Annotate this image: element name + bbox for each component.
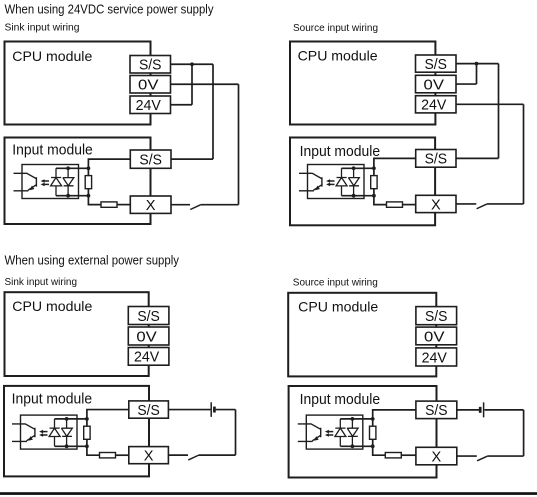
- wire node down to 24V level (TL): [191, 64, 193, 105]
- optocoupler package outline (top-right): [308, 165, 365, 199]
- battery long plate (BR): [483, 402, 485, 417]
- LED bottom rail (top-right): [342, 195, 374, 197]
- svg-text:S/S: S/S: [137, 309, 160, 325]
- series resistor body (top-right): [387, 202, 403, 207]
- label: sink input wiring (top-left): [5, 22, 80, 34]
- wire switch to 24V net (TR): [487, 203, 524, 205]
- svg-text:When using external power supp: When using external power supply: [5, 253, 180, 268]
- phototransistor emitter arrow (top-right): [315, 186, 320, 191]
- phototransistor emitter arrow (top-left): [30, 186, 35, 191]
- phototransistor emitter arrow (bottom-left): [28, 436, 33, 441]
- svg-text:Source input wiring: Source input wiring: [293, 276, 378, 288]
- svg-text:Input module: Input module: [12, 391, 93, 407]
- wire input S/S to resistor node (bottom-left): [87, 410, 129, 419]
- svg-text:X: X: [431, 449, 441, 465]
- CPU terminal 0V (bottom-left): [128, 327, 169, 345]
- junction dot diode top (bottom-right): [351, 417, 355, 421]
- LED diode down (bottom-left): [61, 419, 72, 446]
- svg-text:S/S: S/S: [425, 152, 448, 168]
- CPU terminal 0V (top-right): [416, 75, 457, 93]
- wire series resistor to X (bottom-right): [401, 454, 416, 456]
- input terminal S/S label (bottom-left): [137, 403, 160, 419]
- switch blade X circuit (top-left): [190, 205, 200, 210]
- wire input S/S to battery (BR): [457, 409, 479, 411]
- wire CPU S/S right (TL): [171, 63, 214, 65]
- junction dot diode top (bottom-left): [65, 417, 69, 421]
- junction dot diode bottom (bottom-left): [65, 444, 69, 448]
- svg-text:S/S: S/S: [425, 309, 448, 325]
- battery short plate (BL): [213, 407, 216, 413]
- Input module label (bottom-left): [12, 391, 93, 407]
- svg-text:0V: 0V: [424, 77, 445, 93]
- wire 24V right (TL): [171, 104, 193, 106]
- page bottom rule: [0, 492, 537, 495]
- CPU module box (top-left): [5, 42, 151, 125]
- input terminal S/S label (top-right): [425, 152, 448, 168]
- series resistor body (bottom-right): [385, 453, 401, 458]
- input terminal S/S label (bottom-right): [425, 403, 448, 419]
- wire S/S net vertical (TL): [212, 64, 214, 159]
- CPU terminal 0V label (bottom-right): [424, 329, 445, 345]
- LED diode up (bottom-left): [49, 419, 60, 446]
- wire switch to 0V net (TL): [201, 204, 239, 206]
- input terminal X label (top-right): [431, 197, 441, 213]
- wire X right stub (BL): [168, 454, 188, 456]
- CPU terminal S/S (top-left): [130, 56, 171, 74]
- svg-text:S/S: S/S: [425, 403, 448, 419]
- CPU terminal S/S label (bottom-left): [137, 309, 160, 325]
- CPU terminal 24V (top-left): [130, 96, 171, 114]
- phototransistor (top-right): [299, 173, 322, 191]
- input terminal X (bottom-left): [129, 447, 169, 464]
- svg-text:X: X: [146, 198, 156, 214]
- CPU terminal 24V label (bottom-right): [422, 350, 448, 366]
- wire 0V net vertical (TL): [238, 84, 240, 204]
- resistor vertical body (bottom-right): [370, 426, 376, 439]
- switch blade X circuit (top-right): [477, 204, 487, 209]
- wire resistor node to series resistor (bottom-right): [373, 446, 386, 455]
- CPU terminal S/S label (top-right): [425, 57, 448, 73]
- light arrow 1 (top-right): [326, 179, 334, 183]
- svg-text:S/S: S/S: [139, 152, 162, 168]
- input terminal X (top-right): [416, 195, 456, 212]
- Input module box (top-left): [5, 138, 151, 225]
- input terminal S/S (bottom-right): [416, 401, 457, 419]
- CPU terminal 0V (top-left): [130, 76, 171, 94]
- CPU terminal 0V label (top-left): [138, 78, 159, 94]
- wire input S/S to resistor node (bottom-right): [373, 410, 416, 419]
- svg-text:0V: 0V: [138, 78, 159, 94]
- wire 0V right (TR): [456, 83, 477, 85]
- wire input S/S to battery (BL): [168, 409, 210, 411]
- junction dot S/S-0V (TR): [475, 62, 479, 66]
- wire X right stub (TL): [171, 204, 190, 206]
- light arrow 2 (top-right): [326, 183, 334, 187]
- optocoupler package outline (bottom-left): [21, 415, 78, 449]
- CPU module label (bottom-left): [12, 298, 92, 314]
- LED top rail (top-right): [342, 167, 374, 169]
- wire series resistor to X (top-left): [117, 204, 130, 206]
- label: source input wiring (bottom-right): [293, 276, 378, 288]
- optocoupler package outline (bottom-right): [306, 415, 363, 449]
- wire input S/S right stub (TL): [171, 158, 213, 160]
- LED top rail (top-left): [56, 167, 88, 169]
- wire resistor node to series resistor (top-left): [88, 196, 101, 205]
- resistor vertical leads (top-right): [373, 168, 375, 195]
- svg-text:24V: 24V: [422, 350, 448, 366]
- input terminal X label (top-left): [146, 198, 156, 214]
- LED bottom rail (top-left): [56, 195, 88, 197]
- phototransistor emitter arrow (bottom-right): [314, 436, 319, 441]
- LED diode down (top-right): [348, 168, 359, 195]
- light arrow 2 (bottom-left): [39, 433, 47, 437]
- wire battery to net (BR): [485, 409, 524, 411]
- resistor vertical body (bottom-left): [84, 426, 90, 439]
- input terminal S/S (top-right): [416, 150, 456, 168]
- CPU terminal 0V label (bottom-left): [136, 329, 157, 345]
- svg-text:CPU module: CPU module: [298, 47, 378, 63]
- input terminal X (top-left): [130, 196, 171, 213]
- input terminal X label (bottom-right): [431, 449, 441, 465]
- phototransistor (bottom-right): [298, 424, 321, 442]
- wire 24V net vertical (TR): [523, 104, 525, 204]
- svg-text:24V: 24V: [134, 350, 160, 366]
- svg-text:When using 24VDC service power: When using 24VDC service power supply: [5, 2, 214, 17]
- CPU module label (top-right): [298, 47, 378, 63]
- light arrow 1 (top-left): [41, 179, 49, 183]
- wire battery net vertical (BR): [523, 410, 525, 456]
- LED bottom rail (bottom-left): [55, 445, 87, 447]
- CPU terminal 24V (top-right): [416, 96, 457, 113]
- LED top rail (bottom-left): [55, 418, 87, 420]
- wire series resistor to X (top-right): [403, 204, 416, 206]
- phototransistor (bottom-left): [12, 424, 35, 442]
- wire input S/S to resistor node (top-right): [374, 158, 416, 168]
- svg-text:0V: 0V: [136, 329, 157, 345]
- CPU terminal 24V label (bottom-left): [134, 350, 160, 366]
- light arrow 2 (bottom-right): [325, 433, 333, 437]
- junction dot resistor top (top-left): [87, 166, 91, 170]
- CPU terminal S/S (bottom-right): [416, 307, 457, 325]
- wire X right stub (TR): [456, 203, 476, 205]
- svg-text:CPU module: CPU module: [12, 48, 92, 64]
- junction dot resistor bottom (top-right): [372, 194, 376, 198]
- CPU terminal S/S label (top-left): [139, 58, 162, 74]
- title: when using external power supply: [5, 253, 180, 268]
- CPU terminal 0V (bottom-right): [416, 327, 457, 345]
- svg-text:S/S: S/S: [137, 403, 160, 419]
- svg-text:CPU module: CPU module: [12, 298, 92, 314]
- LED diode down (top-left): [63, 168, 74, 195]
- wire battery net vertical (BL): [235, 410, 237, 456]
- svg-text:S/S: S/S: [425, 57, 448, 73]
- wire series resistor to X (bottom-left): [116, 454, 129, 456]
- wire node down to 0V level (TR): [476, 64, 478, 84]
- input terminal X (bottom-right): [416, 447, 457, 465]
- svg-text:X: X: [144, 448, 154, 464]
- Input module box (bottom-left): [4, 386, 149, 477]
- svg-text:Input module: Input module: [300, 144, 381, 160]
- resistor vertical leads (bottom-left): [86, 419, 88, 446]
- input terminal X label (bottom-left): [144, 448, 154, 464]
- junction dot resistor top (bottom-right): [371, 417, 375, 421]
- light arrow 1 (bottom-left): [39, 430, 47, 434]
- CPU module label (bottom-right): [298, 299, 378, 315]
- Input module box (bottom-right): [289, 386, 437, 478]
- CPU module label (top-left): [12, 48, 92, 64]
- junction dot diode bottom (top-left): [66, 194, 70, 198]
- CPU terminal S/S (bottom-left): [128, 307, 169, 325]
- svg-text:S/S: S/S: [139, 58, 162, 74]
- wire CPU S/S right (TR): [456, 63, 499, 65]
- CPU module box (top-right): [290, 42, 435, 125]
- resistor vertical body (top-right): [371, 176, 377, 189]
- wire input S/S right stub (TR): [456, 157, 499, 159]
- junction dot diode bottom (bottom-right): [351, 444, 355, 448]
- phototransistor (top-left): [14, 173, 37, 191]
- junction dot resistor bottom (bottom-right): [371, 444, 375, 448]
- switch blade X circuit (bottom-left): [188, 455, 198, 460]
- wire 24V right (TR): [456, 103, 524, 105]
- Input module label (bottom-right): [300, 392, 381, 408]
- light arrow 1 (bottom-right): [325, 430, 333, 434]
- LED diode up (top-left): [51, 168, 62, 195]
- input terminal S/S (top-left): [130, 150, 171, 168]
- resistor vertical leads (bottom-right): [372, 419, 374, 446]
- switch blade X circuit (bottom-right): [477, 456, 487, 461]
- LED diode up (top-right): [336, 168, 347, 195]
- resistor vertical leads (top-left): [87, 168, 89, 195]
- LED diode up (bottom-right): [335, 419, 346, 446]
- CPU module box (bottom-left): [5, 292, 149, 376]
- svg-text:24V: 24V: [136, 98, 162, 114]
- CPU terminal 24V (bottom-right): [416, 348, 457, 366]
- junction dot diode top (top-right): [352, 166, 356, 170]
- LED top rail (bottom-right): [340, 418, 372, 420]
- title: when using 24VDC service power supply: [5, 2, 214, 17]
- series resistor body (bottom-left): [100, 453, 116, 458]
- label: sink input wiring (bottom-left): [5, 276, 78, 288]
- wire net to switch (BR): [487, 455, 523, 457]
- battery long plate (BL): [210, 402, 212, 417]
- CPU terminal S/S label (bottom-right): [425, 309, 448, 325]
- junction dot S/S-24V (TL): [190, 62, 194, 66]
- optocoupler package outline (top-left): [22, 165, 79, 199]
- CPU terminal 24V label (top-left): [136, 98, 162, 114]
- input terminal S/S (bottom-left): [129, 401, 169, 418]
- Input module box (top-right): [290, 138, 435, 226]
- resistor vertical body (top-left): [85, 176, 91, 189]
- svg-text:0V: 0V: [424, 329, 445, 345]
- CPU terminal S/S (top-right): [416, 55, 457, 72]
- wire input S/S to resistor node (top-left): [88, 159, 130, 168]
- wire net to switch (BL): [199, 454, 236, 456]
- CPU terminal 24V (bottom-left): [128, 348, 169, 366]
- junction dot resistor bottom (top-left): [87, 194, 91, 198]
- CPU terminal 0V label (top-right): [424, 77, 445, 93]
- svg-text:24V: 24V: [421, 98, 447, 114]
- series resistor body (top-left): [101, 202, 117, 207]
- Input module label (top-left): [12, 143, 93, 159]
- Input module label (top-right): [300, 144, 381, 160]
- wire battery to net (BL): [216, 409, 236, 411]
- CPU module box (bottom-right): [288, 293, 436, 377]
- CPU terminal 24V label (top-right): [421, 98, 447, 114]
- svg-text:X: X: [431, 197, 441, 213]
- junction dot diode bottom (top-right): [352, 194, 356, 198]
- input terminal S/S label (top-left): [139, 152, 162, 168]
- svg-text:Input module: Input module: [300, 392, 381, 408]
- junction dot diode top (top-left): [66, 166, 70, 170]
- battery short plate (BR): [479, 407, 482, 413]
- wire resistor node to series resistor (bottom-left): [87, 446, 100, 455]
- label: source input wiring (top-right): [293, 22, 378, 34]
- junction dot resistor top (top-right): [372, 166, 376, 170]
- wire X right stub (BR): [457, 455, 477, 457]
- LED bottom rail (bottom-right): [340, 445, 372, 447]
- wire resistor node to series resistor (top-right): [374, 196, 387, 205]
- junction dot resistor bottom (bottom-left): [85, 444, 89, 448]
- svg-text:Sink input wiring: Sink input wiring: [5, 22, 80, 34]
- svg-text:CPU module: CPU module: [298, 299, 378, 315]
- light arrow 2 (top-left): [41, 183, 49, 187]
- LED diode down (bottom-right): [347, 419, 358, 446]
- svg-text:Source input wiring: Source input wiring: [293, 22, 378, 34]
- junction dot resistor top (bottom-left): [85, 417, 89, 421]
- svg-text:Input module: Input module: [12, 143, 93, 159]
- wire 0V right (TL): [171, 83, 239, 85]
- svg-text:Sink input wiring: Sink input wiring: [5, 276, 78, 288]
- wire S/S net vertical (TR): [498, 64, 500, 159]
